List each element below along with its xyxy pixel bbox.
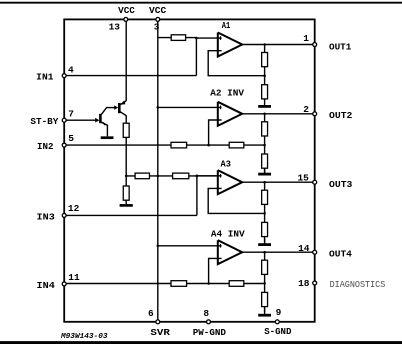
svg-text:PW-GND: PW-GND	[193, 327, 227, 338]
svg-text:7: 7	[68, 109, 74, 120]
svg-text:DIAGNOSTICS: DIAGNOSTICS	[330, 280, 386, 290]
svg-text:2: 2	[303, 104, 309, 115]
svg-text:A4 INV: A4 INV	[211, 229, 245, 240]
svg-text:18: 18	[298, 278, 310, 289]
svg-text:11: 11	[68, 272, 80, 283]
svg-text:IN2: IN2	[37, 141, 54, 152]
svg-text:4: 4	[68, 64, 74, 75]
svg-text:13: 13	[109, 22, 121, 33]
svg-text:A3: A3	[221, 158, 232, 169]
svg-text:3: 3	[154, 22, 160, 33]
svg-text:9: 9	[276, 307, 282, 318]
svg-text:VCC: VCC	[118, 6, 135, 16]
svg-text:12: 12	[68, 203, 80, 214]
svg-text:OUT2: OUT2	[329, 110, 353, 121]
svg-text:S-GND: S-GND	[264, 326, 292, 337]
svg-text:IN4: IN4	[37, 280, 56, 291]
svg-text:6: 6	[148, 308, 154, 319]
svg-text:14: 14	[298, 243, 310, 254]
svg-text:A2 INV: A2 INV	[210, 87, 244, 98]
svg-text:VCC: VCC	[149, 6, 167, 16]
svg-text:IN3: IN3	[37, 211, 56, 222]
svg-text:5: 5	[68, 133, 74, 144]
svg-text:8: 8	[203, 308, 209, 319]
svg-text:1: 1	[303, 33, 309, 44]
svg-text:M93W143-03: M93W143-03	[60, 333, 108, 341]
svg-text:OUT4: OUT4	[329, 249, 352, 260]
svg-text:IN1: IN1	[36, 72, 54, 83]
svg-text:OUT3: OUT3	[329, 179, 353, 190]
svg-text:SVR: SVR	[150, 327, 170, 338]
svg-text:15: 15	[297, 172, 309, 183]
svg-text:OUT1: OUT1	[329, 41, 352, 52]
svg-text:A1: A1	[222, 20, 231, 31]
svg-text:ST-BY: ST-BY	[30, 116, 58, 127]
